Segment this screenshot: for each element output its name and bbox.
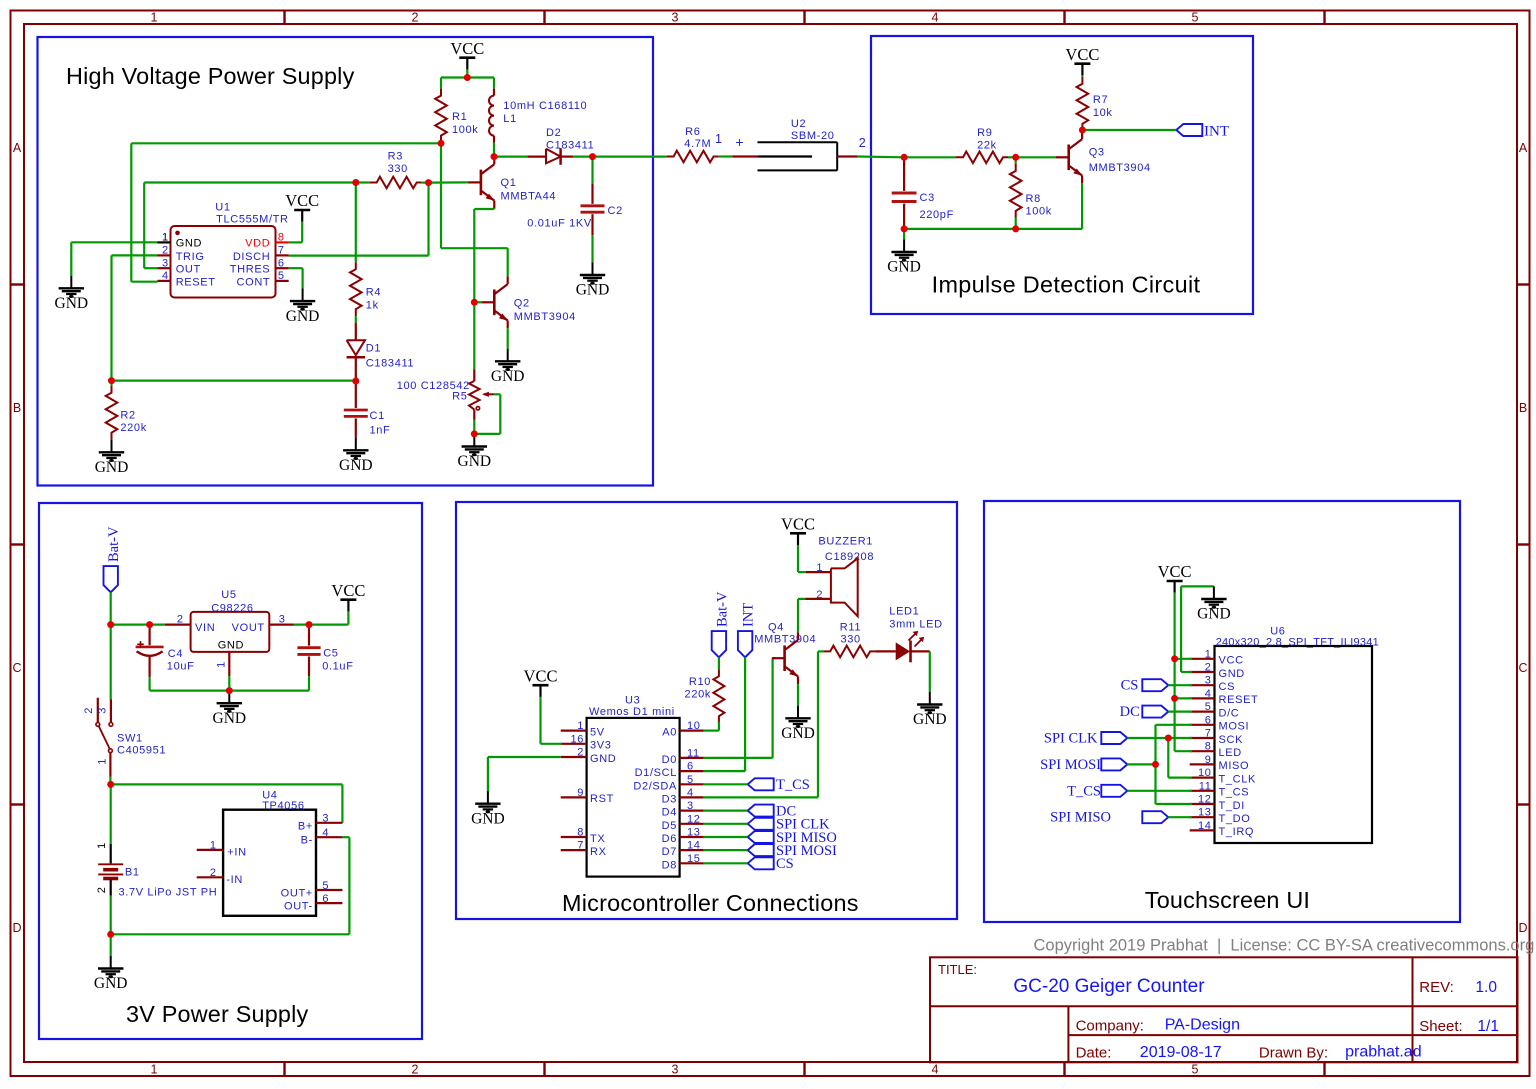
svg-text:BUZZER1: BUZZER1 (818, 536, 873, 548)
svg-text:4: 4 (932, 11, 939, 25)
svg-text:2: 2 (412, 1063, 419, 1077)
svg-text:TP4056: TP4056 (262, 800, 304, 812)
svg-text:RX: RX (590, 846, 607, 858)
svg-text:7: 7 (278, 245, 285, 257)
svg-text:1.0: 1.0 (1475, 979, 1497, 996)
svg-text:VCC: VCC (781, 515, 815, 534)
svg-text:MISO: MISO (1219, 760, 1250, 772)
svg-text:220pF: 220pF (920, 209, 954, 221)
svg-text:2: 2 (96, 887, 108, 894)
svg-text:MMBT3904: MMBT3904 (514, 311, 576, 323)
svg-text:7: 7 (1205, 728, 1212, 740)
svg-text:High Voltage Power Supply: High Voltage Power Supply (66, 63, 355, 89)
svg-text:SPI MISO: SPI MISO (1050, 810, 1111, 826)
svg-text:THRES: THRES (230, 264, 271, 276)
svg-text:14: 14 (1198, 820, 1212, 832)
svg-text:OUT+: OUT+ (281, 888, 313, 900)
svg-text:TITLE:: TITLE: (938, 962, 977, 977)
svg-text:C183411: C183411 (366, 358, 414, 370)
svg-text:4: 4 (162, 270, 169, 282)
svg-text:A: A (1519, 141, 1528, 155)
svg-text:Q3: Q3 (1089, 147, 1105, 159)
svg-text:12: 12 (687, 813, 701, 825)
svg-text:5: 5 (322, 880, 329, 892)
svg-text:T_CS: T_CS (776, 777, 810, 793)
svg-text:GND: GND (339, 457, 373, 474)
svg-text:PA-Design: PA-Design (1165, 1017, 1240, 1034)
svg-text:Copyright 2019 Prabhat | Lic: Copyright 2019 Prabhat | License: CC BY-… (1034, 936, 1535, 954)
svg-text:GND: GND (491, 368, 525, 385)
svg-text:Bat-V: Bat-V (714, 591, 730, 627)
svg-text:T_DO: T_DO (1219, 813, 1251, 825)
svg-text:10uF: 10uF (167, 661, 195, 673)
svg-text:CS: CS (1121, 678, 1139, 694)
svg-text:T_DI: T_DI (1219, 800, 1245, 812)
svg-text:C: C (12, 661, 21, 675)
svg-text:SBM-20: SBM-20 (791, 130, 835, 142)
svg-text:R9: R9 (977, 127, 992, 139)
svg-text:3: 3 (322, 813, 329, 825)
svg-text:OUT: OUT (176, 264, 201, 276)
svg-text:GND: GND (218, 640, 244, 652)
svg-text:1k: 1k (366, 300, 379, 312)
svg-text:240x320_2.8_SPI_TFT_ILI9341: 240x320_2.8_SPI_TFT_ILI9341 (1216, 636, 1379, 648)
svg-text:GND: GND (458, 453, 492, 470)
svg-text:5: 5 (1192, 11, 1199, 25)
svg-text:D: D (1518, 921, 1527, 935)
svg-text:GND: GND (576, 282, 610, 299)
svg-text:LED1: LED1 (889, 606, 919, 618)
svg-text:2: 2 (1205, 662, 1212, 674)
svg-text:Impulse Detection Circuit: Impulse Detection Circuit (932, 272, 1201, 298)
svg-text:R3: R3 (388, 151, 403, 163)
svg-text:1nF: 1nF (370, 425, 391, 437)
svg-text:Sheet:: Sheet: (1419, 1018, 1462, 1035)
svg-text:LED: LED (1219, 747, 1242, 759)
svg-text:3.7V LiPo JST PH: 3.7V LiPo JST PH (119, 887, 218, 899)
svg-text:VCC: VCC (1158, 562, 1192, 581)
svg-text:+: + (735, 134, 743, 150)
svg-text:D3: D3 (662, 793, 677, 805)
svg-text:3: 3 (96, 707, 108, 714)
svg-text:2: 2 (412, 11, 419, 25)
svg-text:100k: 100k (1026, 206, 1052, 218)
svg-text:MMBTA44: MMBTA44 (501, 191, 557, 203)
svg-text:330: 330 (841, 634, 861, 646)
svg-text:Microcontroller Connections: Microcontroller Connections (562, 890, 859, 916)
svg-text:GND: GND (781, 725, 815, 742)
svg-text:2: 2 (577, 747, 584, 759)
svg-text:TX: TX (590, 833, 605, 845)
svg-text:GND: GND (176, 237, 202, 249)
svg-text:GND: GND (94, 975, 128, 992)
svg-text:4.7M: 4.7M (684, 138, 711, 150)
svg-text:10k: 10k (1093, 107, 1113, 119)
svg-text:Drawn By:: Drawn By: (1259, 1045, 1328, 1062)
svg-text:C4: C4 (168, 648, 183, 660)
svg-text:3V Power Supply: 3V Power Supply (126, 1001, 309, 1027)
svg-text:C5: C5 (323, 648, 338, 660)
svg-text:GND: GND (887, 259, 921, 276)
svg-text:22k: 22k (977, 140, 997, 152)
svg-text:2: 2 (83, 707, 95, 714)
svg-text:B+: B+ (298, 820, 313, 832)
svg-text:1: 1 (151, 11, 158, 25)
svg-text:SPI CLK: SPI CLK (1044, 731, 1098, 747)
svg-text:VCC: VCC (285, 191, 319, 210)
svg-text:D5: D5 (662, 820, 677, 832)
svg-text:2: 2 (859, 136, 866, 150)
svg-text:VCC: VCC (1219, 655, 1244, 667)
svg-text:MMBT3904: MMBT3904 (1089, 162, 1151, 174)
svg-text:GND: GND (1219, 668, 1245, 680)
svg-text:D6: D6 (662, 833, 677, 845)
svg-text:GND: GND (55, 295, 89, 312)
svg-text:12: 12 (1198, 794, 1212, 806)
svg-text:C: C (1518, 661, 1527, 675)
svg-text:VCC: VCC (450, 39, 484, 58)
svg-text:A: A (13, 141, 22, 155)
svg-text:1: 1 (96, 842, 108, 849)
svg-text:D1: D1 (366, 343, 381, 355)
svg-text:R2: R2 (120, 410, 135, 422)
svg-text:T_CS: T_CS (1067, 783, 1101, 799)
svg-text:100k: 100k (452, 124, 478, 136)
svg-text:5: 5 (1205, 701, 1212, 713)
svg-text:8: 8 (278, 232, 285, 244)
svg-text:RESET: RESET (1219, 694, 1259, 706)
svg-text:16: 16 (570, 733, 584, 745)
svg-text:+IN: +IN (227, 846, 246, 858)
svg-text:REV:: REV: (1419, 979, 1453, 996)
svg-text:5V: 5V (590, 726, 605, 738)
svg-text:4: 4 (687, 787, 694, 799)
svg-text:SCK: SCK (1219, 734, 1244, 746)
svg-text:Bat-V: Bat-V (106, 526, 122, 562)
svg-text:C2: C2 (608, 205, 623, 217)
svg-text:DISCH: DISCH (233, 251, 270, 263)
svg-text:R5: R5 (452, 390, 467, 402)
svg-text:8: 8 (1205, 741, 1212, 753)
svg-text:R11: R11 (840, 622, 861, 634)
svg-text:6: 6 (1205, 714, 1212, 726)
svg-text:1: 1 (162, 232, 169, 244)
svg-text:3: 3 (1205, 675, 1212, 687)
svg-text:GC-20 Geiger Counter: GC-20 Geiger Counter (1013, 976, 1205, 997)
svg-text:GND: GND (1197, 606, 1231, 623)
svg-text:2: 2 (816, 589, 823, 601)
svg-text:R4: R4 (366, 287, 381, 299)
svg-text:CONT: CONT (237, 276, 271, 288)
svg-text:1: 1 (715, 132, 722, 146)
svg-text:D/C: D/C (1219, 707, 1240, 719)
svg-text:6: 6 (687, 761, 694, 773)
svg-text:9: 9 (577, 787, 584, 799)
svg-text:1: 1 (151, 1063, 158, 1077)
svg-text:B1: B1 (125, 867, 140, 879)
svg-text:1: 1 (210, 840, 217, 852)
svg-text:OUT-: OUT- (284, 901, 313, 913)
svg-text:2: 2 (210, 867, 217, 879)
svg-text:220k: 220k (120, 422, 146, 434)
svg-text:T_CLK: T_CLK (1219, 773, 1257, 785)
svg-text:2: 2 (162, 245, 169, 257)
svg-text:B-: B- (301, 835, 313, 847)
svg-text:Q4: Q4 (768, 622, 784, 634)
svg-text:GND: GND (913, 711, 947, 728)
svg-text:1: 1 (215, 661, 227, 668)
svg-text:TLC555M/TR: TLC555M/TR (216, 213, 289, 225)
svg-text:3V3: 3V3 (590, 740, 612, 752)
svg-text:Company:: Company: (1076, 1017, 1144, 1034)
svg-text:D1/SCL: D1/SCL (635, 767, 677, 779)
svg-text:MOSI: MOSI (1219, 721, 1250, 733)
svg-text:1: 1 (96, 758, 108, 765)
svg-text:3: 3 (672, 1063, 679, 1077)
svg-text:13: 13 (1198, 807, 1212, 819)
svg-text:GND: GND (471, 810, 505, 827)
svg-text:R8: R8 (1026, 193, 1041, 205)
svg-text:VOUT: VOUT (232, 622, 265, 634)
svg-text:U5: U5 (221, 589, 236, 601)
svg-text:D7: D7 (662, 846, 677, 858)
svg-text:14: 14 (687, 840, 701, 852)
svg-text:15: 15 (687, 853, 701, 865)
svg-text:6: 6 (322, 893, 329, 905)
svg-text:5: 5 (278, 270, 285, 282)
svg-text:CS: CS (1219, 681, 1236, 693)
svg-text:5: 5 (687, 774, 694, 786)
svg-text:T_IRQ: T_IRQ (1219, 826, 1255, 838)
svg-text:MMBT3904: MMBT3904 (754, 634, 816, 646)
svg-text:330: 330 (388, 163, 408, 175)
svg-text:C98226: C98226 (211, 603, 253, 615)
svg-text:U1: U1 (215, 202, 230, 214)
svg-text:1: 1 (1205, 648, 1212, 660)
svg-text:D2: D2 (546, 127, 561, 139)
svg-text:10: 10 (1198, 767, 1212, 779)
svg-text:SW1: SW1 (117, 733, 143, 745)
svg-text:0.01uF 1KV: 0.01uF 1KV (527, 218, 592, 230)
svg-text:VIN: VIN (195, 622, 215, 634)
svg-text:C183411: C183411 (546, 140, 594, 152)
svg-text:13: 13 (687, 827, 701, 839)
svg-text:7: 7 (577, 840, 584, 852)
svg-text:Q2: Q2 (514, 298, 530, 310)
svg-text:B: B (1519, 401, 1527, 415)
svg-text:INT: INT (1204, 124, 1229, 140)
svg-text:D0: D0 (662, 754, 677, 766)
svg-text:U3: U3 (625, 695, 640, 707)
svg-text:Q1: Q1 (501, 177, 517, 189)
svg-text:CS: CS (776, 856, 794, 872)
svg-text:3: 3 (672, 11, 679, 25)
svg-text:Touchscreen UI: Touchscreen UI (1145, 887, 1310, 913)
svg-text:6: 6 (278, 257, 285, 269)
svg-text:0.1uF: 0.1uF (322, 661, 353, 673)
svg-text:R10: R10 (689, 676, 711, 688)
svg-text:C1: C1 (370, 410, 385, 422)
svg-text:C3: C3 (920, 192, 935, 204)
svg-text:L1: L1 (503, 113, 517, 125)
svg-text:U2: U2 (791, 118, 806, 130)
svg-text:DC: DC (1120, 704, 1140, 720)
svg-text:C189208: C189208 (825, 551, 874, 563)
svg-text:R6: R6 (685, 126, 700, 138)
svg-text:R7: R7 (1093, 94, 1108, 106)
svg-text:9: 9 (1205, 754, 1212, 766)
svg-text:RESET: RESET (176, 276, 216, 288)
svg-text:INT: INT (741, 603, 757, 627)
svg-text:prabhat.ad: prabhat.ad (1345, 1043, 1422, 1060)
svg-text:4: 4 (932, 1063, 939, 1077)
svg-text:Wemos D1 mini: Wemos D1 mini (589, 706, 675, 718)
svg-text:GND: GND (286, 308, 320, 325)
svg-text:D8: D8 (662, 859, 677, 871)
svg-text:VCC: VCC (1065, 45, 1099, 64)
svg-text:VCC: VCC (331, 581, 365, 600)
svg-text:C405951: C405951 (117, 745, 166, 757)
svg-text:Date:: Date: (1076, 1045, 1112, 1062)
svg-text:B: B (13, 401, 21, 415)
svg-text:GND: GND (213, 710, 247, 727)
svg-text:3mm LED: 3mm LED (889, 619, 942, 631)
svg-text:220k: 220k (685, 689, 711, 701)
svg-text:-IN: -IN (226, 874, 243, 886)
svg-text:R1: R1 (452, 111, 467, 123)
svg-text:D: D (12, 921, 21, 935)
svg-text:11: 11 (1199, 780, 1212, 792)
svg-text:D2/SDA: D2/SDA (633, 780, 677, 792)
svg-text:A0: A0 (662, 727, 677, 739)
svg-text:10mH C168110: 10mH C168110 (503, 100, 587, 112)
svg-text:RST: RST (590, 793, 614, 805)
svg-text:1/1: 1/1 (1477, 1018, 1499, 1035)
svg-text:5: 5 (1192, 1063, 1199, 1077)
svg-text:VDD: VDD (245, 237, 270, 249)
svg-text:3: 3 (162, 257, 169, 269)
svg-text:VCC: VCC (524, 666, 558, 685)
svg-text:1: 1 (816, 562, 823, 574)
svg-text:T_CS: T_CS (1219, 787, 1250, 799)
svg-text:2019-08-17: 2019-08-17 (1140, 1044, 1222, 1061)
svg-text:4: 4 (1205, 688, 1212, 700)
svg-text:3: 3 (687, 800, 694, 812)
svg-text:8: 8 (577, 827, 584, 839)
svg-text:11: 11 (687, 747, 700, 759)
svg-text:SPI MOSI: SPI MOSI (1040, 757, 1101, 773)
svg-text:1: 1 (577, 720, 584, 732)
svg-text:D4: D4 (662, 807, 677, 819)
svg-text:10: 10 (687, 720, 701, 732)
svg-text:2: 2 (177, 614, 184, 626)
svg-text:4: 4 (322, 827, 329, 839)
svg-text:GND: GND (590, 753, 616, 765)
svg-text:TRIG: TRIG (176, 251, 205, 263)
svg-text:GND: GND (95, 459, 129, 476)
